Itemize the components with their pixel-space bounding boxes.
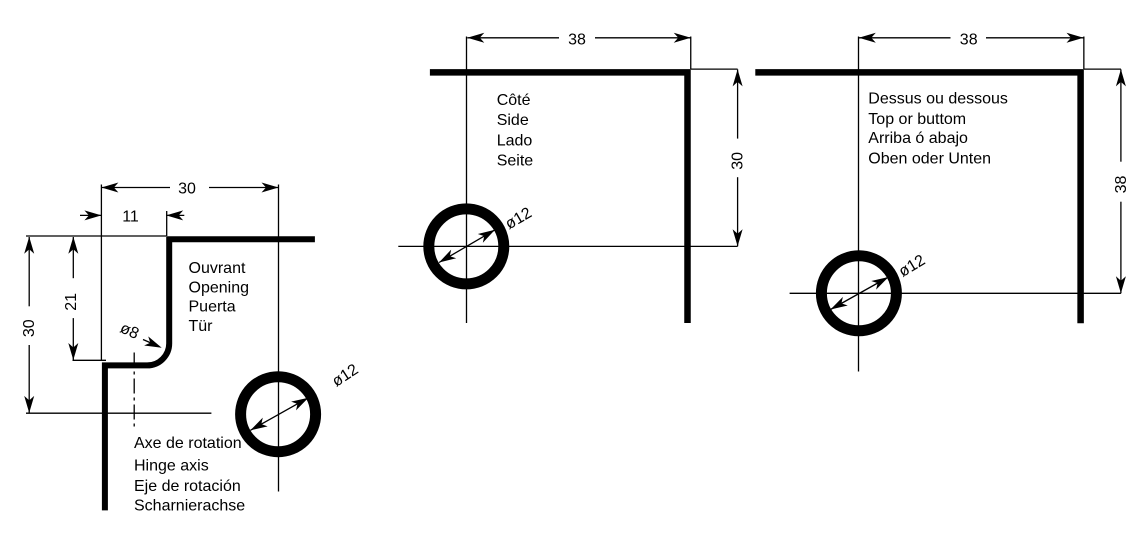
arrow 11 left (points right)	[84, 210, 101, 220]
arrow 11 right (points left)	[166, 210, 183, 220]
o8 arrowhead	[144, 336, 164, 352]
extension/centerline vertical left	[466, 37, 468, 324]
hinge axis dash-dot centerline	[133, 353, 135, 431]
svg-text:Eje de rotación: Eje de rotación	[134, 478, 241, 495]
svg-text:Tür: Tür	[189, 318, 214, 335]
arrow 30 top right	[262, 183, 279, 193]
svg-text:30: 30	[730, 152, 747, 170]
svg-text:Opening: Opening	[189, 280, 250, 297]
extension line left face	[100, 185, 102, 362]
dimension line 30 right	[737, 69, 739, 138]
arrow 38 top right	[1067, 33, 1084, 43]
svg-text:38: 38	[960, 31, 978, 48]
arrow 30 top left	[101, 183, 118, 193]
svg-text:Oben oder Unten: Oben oder Unten	[868, 150, 991, 167]
svg-text:38: 38	[568, 31, 586, 48]
svg-text:Side: Side	[497, 112, 529, 129]
extension line top face	[26, 235, 166, 237]
hole circle o12	[821, 256, 896, 331]
arrow 30 vert bottom	[24, 396, 34, 413]
connector corner to 38 dim	[1084, 68, 1121, 70]
diameter arrow shaft	[250, 398, 308, 431]
dimension line 38	[467, 37, 559, 39]
arrow 38 right top	[1116, 69, 1126, 86]
svg-text:30: 30	[21, 319, 38, 337]
svg-text:Seite: Seite	[497, 153, 534, 170]
connector corner to 30 dim	[691, 68, 738, 70]
hole circle o12	[241, 377, 316, 452]
diameter arrowheads	[828, 297, 848, 314]
arrow 38 left	[467, 33, 484, 43]
svg-text:Axe de rotation: Axe de rotation	[134, 435, 242, 452]
svg-text:38: 38	[1113, 176, 1130, 194]
extension line right / circle centerline	[278, 185, 280, 492]
svg-text:Ouvrant: Ouvrant	[189, 260, 246, 277]
extension vertical right	[1083, 37, 1085, 70]
svg-text:Côté: Côté	[497, 92, 531, 109]
hole circle o12	[429, 209, 504, 284]
extension line 11 right	[166, 211, 168, 236]
svg-text:11: 11	[122, 209, 139, 226]
arrow 38 top left	[859, 33, 876, 43]
dimension line 30 horizontal top	[101, 187, 170, 189]
svg-text:30: 30	[178, 181, 196, 198]
o8 leader shaft	[143, 340, 159, 347]
arrow 30 vert top	[24, 237, 34, 254]
profile outline thick	[105, 239, 315, 510]
extension vertical right	[690, 37, 692, 70]
dimension line 38 top	[859, 37, 951, 39]
svg-text:Lado: Lado	[497, 133, 533, 150]
svg-text:Arriba ó abajo: Arriba ó abajo	[868, 130, 968, 147]
horizontal centerline through hole	[398, 245, 737, 247]
svg-text:Scharnierachse: Scharnierachse	[134, 498, 245, 515]
svg-text:Dessus ou dessous: Dessus ou dessous	[868, 91, 1008, 108]
diameter arrow shaft	[439, 230, 495, 263]
svg-text:Puerta: Puerta	[189, 299, 236, 316]
dimension line 21 vertical	[72, 237, 74, 278]
extension line hinge axis	[26, 412, 211, 414]
svg-text:Top or buttom: Top or buttom	[868, 111, 966, 128]
arrow 21 top	[68, 237, 78, 254]
arrow 21 bottom	[68, 343, 78, 360]
arrow 38 right	[674, 33, 691, 43]
diameter arrow shaft	[831, 277, 889, 310]
horizontal centerline through hole	[790, 292, 1121, 294]
arrow 38 right bottom	[1116, 276, 1126, 293]
arrow 30 top	[733, 69, 743, 86]
svg-text:21: 21	[63, 293, 80, 311]
centerline vertical	[858, 37, 860, 372]
arrow 30 bottom	[733, 229, 743, 246]
diameter arrowheads	[436, 250, 456, 267]
corner outline thick	[755, 72, 1080, 323]
corner outline thick	[430, 72, 688, 323]
diameter arrowheads left circle	[248, 418, 268, 435]
dimension line 38 right	[1120, 69, 1122, 161]
svg-text:Hinge axis: Hinge axis	[134, 457, 209, 474]
dimension line 30 vertical	[28, 237, 30, 306]
extension line 21 bottom	[73, 359, 107, 361]
dimension line 11 tails	[80, 214, 101, 216]
